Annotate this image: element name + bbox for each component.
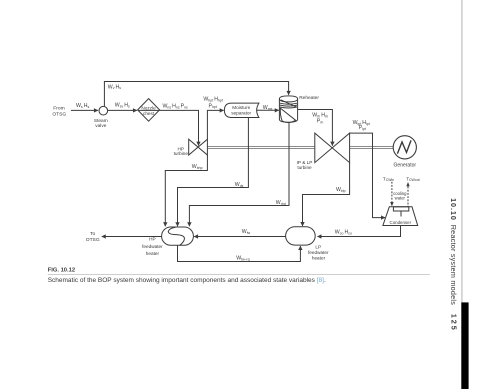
wire: feedwater HP heater to OTSG <box>102 236 162 238</box>
label: Wlpt Hlpt Plpt <box>353 120 370 131</box>
svg-text:Prh: Prh <box>317 119 324 125</box>
svg-text:10.10 Reactor system models: 10.10 Reactor system models <box>449 198 458 305</box>
wire: From OTSG to steam valve <box>71 109 98 111</box>
wire: moisture separator to reheater <box>257 109 279 111</box>
svg-text:turbine: turbine <box>174 151 189 156</box>
wire: HP heater drain to LP heater bottom <box>178 245 301 261</box>
condenser trapezoid <box>383 207 418 226</box>
svg-text:feedwater: feedwater <box>142 244 163 249</box>
svg-text:Wrhd: Wrhd <box>276 200 286 206</box>
label: LP feedwater heater <box>308 244 329 260</box>
steam valve <box>99 106 108 115</box>
wire: reheater outlet to IP/LP turbine <box>298 110 333 146</box>
svg-text:Reheater: Reheater <box>299 95 319 101</box>
nozzle chest diamond <box>138 99 160 122</box>
label: IP & LP turbine <box>297 160 313 170</box>
svg-text:separator: separator <box>231 110 251 115</box>
svg-text:Wbhp: Wbhp <box>192 164 203 170</box>
svg-text:heater: heater <box>312 255 326 260</box>
svg-text:Ws Hs: Ws Hs <box>76 103 89 109</box>
generator <box>393 136 416 159</box>
svg-text:turbine: turbine <box>297 165 312 170</box>
svg-text:OTSG: OTSG <box>52 112 66 118</box>
condenser tube tick <box>400 211 402 217</box>
label: From OTSG <box>52 106 66 118</box>
sidebar separator line <box>461 0 463 302</box>
wire: reheater drain Wrhd to HP heater <box>189 122 289 226</box>
svg-text:Wsv Hs: Wsv Hs <box>115 103 130 109</box>
svg-text:Phpt: Phpt <box>209 103 217 109</box>
wire: condensate condenser to LP feedwater heater <box>318 226 401 237</box>
HP heater S coil <box>168 227 184 245</box>
label: HP feedwater heater <box>142 237 163 256</box>
wire: IP/LP bleed Wblp to LP heater <box>303 163 350 226</box>
label: Moisture separator <box>231 105 251 115</box>
reheater top ellipse <box>279 99 297 102</box>
cooling water outlet dashed <box>406 182 409 207</box>
svg-text:water: water <box>395 196 406 201</box>
wire: turbine shaft IP/LP to generator <box>350 147 393 149</box>
svg-text:Wds: Wds <box>235 182 244 188</box>
wire: nozzle chest through-line to HP turbine <box>138 110 199 145</box>
HP turbine bowtie <box>189 139 208 155</box>
label: Whpt Hhpt Phpt <box>203 97 222 110</box>
svg-text:OTSG: OTSG <box>86 237 100 243</box>
wire: steam bypass Wv from valve top to reheater <box>104 82 288 107</box>
svg-text:Wfw–rg: Wfw–rg <box>236 256 250 262</box>
svg-text:Nozzle: Nozzle <box>141 105 156 110</box>
wire: moisture separator drain Wds to HP heater <box>178 118 249 227</box>
HP feedwater heater <box>162 227 194 245</box>
label: To OTSG <box>86 231 100 243</box>
reheater coil rings <box>280 100 297 108</box>
svg-text:Schematic of the BOP system sh: Schematic of the BOP system showing impo… <box>48 277 326 284</box>
svg-text:Wns Hns Pns: Wns Hns Pns <box>163 104 189 110</box>
IP/LP turbine bowtie <box>315 133 350 163</box>
svg-text:From: From <box>53 106 64 112</box>
label: Nozzle chest <box>141 105 156 116</box>
svg-text:Wrh Hrh: Wrh Hrh <box>312 113 328 119</box>
label: HP turbine <box>174 146 189 156</box>
wire: steam valve to nozzle chest <box>108 109 137 111</box>
wire: HP turbine bleed Wbhp to HP heater <box>165 155 207 226</box>
svg-text:FIG. 10.12: FIG. 10.12 <box>48 268 75 274</box>
svg-text:HP: HP <box>149 237 156 242</box>
svg-text:Wv Hs: Wv Hs <box>108 84 121 90</box>
sidebar black tab <box>461 302 468 389</box>
svg-text:125: 125 <box>449 314 458 332</box>
reheater coil lower loop <box>280 108 296 123</box>
svg-text:TCWin: TCWin <box>383 176 394 182</box>
svg-text:Wfw: Wfw <box>242 229 251 235</box>
svg-text:Wblp: Wblp <box>336 187 346 193</box>
svg-text:heater: heater <box>146 251 160 256</box>
wire: HP turbine exhaust to moisture separator <box>207 110 223 139</box>
condenser tube header box <box>393 207 408 211</box>
svg-text:Wms: Wms <box>263 105 273 111</box>
svg-text:valve: valve <box>95 123 107 129</box>
label: Steam valve <box>94 118 108 129</box>
svg-text:chest: chest <box>143 111 155 116</box>
moisture separator body <box>224 103 259 117</box>
svg-text:TCWout: TCWout <box>406 176 419 182</box>
wire: feedwater LP heater to HP heater <box>194 236 286 238</box>
wire: LP exhaust to condenser <box>350 133 385 218</box>
svg-text:Generator: Generator <box>394 163 417 169</box>
caption rule <box>48 273 430 275</box>
label: cooling water <box>393 191 407 201</box>
label: Wrh Hrh Prh <box>312 113 328 125</box>
svg-text:Condenser: Condenser <box>390 220 412 225</box>
wire: turbine shaft HP to IP/LP <box>208 147 315 149</box>
svg-text:feedwater: feedwater <box>308 250 329 255</box>
svg-text:LP: LP <box>315 244 321 249</box>
cooling water inlet dashed <box>390 182 393 207</box>
reheater vessel <box>279 96 297 122</box>
LP feedwater heater <box>286 227 316 245</box>
svg-text:Whpt Hhpt: Whpt Hhpt <box>203 97 222 103</box>
svg-text:Wco Hco: Wco Hco <box>335 229 352 235</box>
svg-text:To: To <box>90 231 95 237</box>
